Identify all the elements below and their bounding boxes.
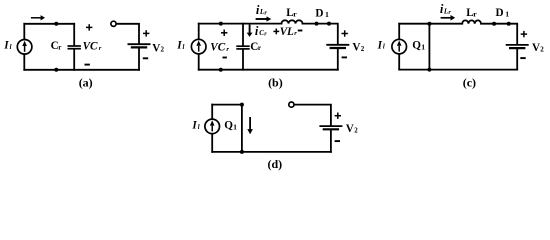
svg-text:(c): (c) — [463, 75, 476, 89]
wire: (d) left branch top segment — [211, 105, 213, 120]
svg-text:2: 2 — [361, 45, 365, 53]
wire: (a) battery branch lower segment — [138, 49, 140, 70]
svg-text:l: l — [383, 44, 385, 51]
plus sign of V2 (b) — [342, 30, 348, 36]
label Il (a) — [3, 40, 11, 52]
current source Il (d) — [205, 119, 220, 134]
svg-text:r: r — [293, 9, 297, 18]
svg-text:I: I — [377, 39, 383, 51]
svg-text:r: r — [294, 30, 297, 37]
svg-text:V: V — [352, 42, 360, 54]
plus sign of V2 (a) — [143, 30, 149, 36]
wire: (b) capacitor branch lower segment — [242, 50, 244, 70]
current arrow iCr (b) — [247, 25, 253, 37]
minus sign of V2 (d) — [335, 140, 340, 142]
wire: (c) top wire from inductor to corner — [481, 24, 517, 44]
svg-text:1: 1 — [233, 123, 237, 132]
label Lr (b) — [286, 7, 297, 19]
label D1 (b) — [315, 7, 329, 19]
label V2 (d) — [346, 123, 358, 135]
label Lr (c) — [466, 7, 477, 19]
wire: (b) top wire from inductor to corner — [303, 24, 338, 44]
wire: (c) left branch bottom segment — [398, 54, 400, 70]
wire: switch Q1 branch (c) — [428, 24, 430, 70]
wire: (b) left branch top segment — [198, 24, 200, 40]
svg-text:i: i — [255, 24, 259, 38]
battery V2 (b) — [326, 45, 349, 48]
svg-text:C: C — [90, 41, 98, 53]
plus sign of VCr (b) — [221, 30, 227, 36]
wire: (a) from terminal to battery branch — [116, 24, 139, 44]
minus sign of V2 (b) — [342, 56, 347, 58]
wire: (b) battery branch lower segment — [337, 49, 339, 70]
svg-text:D: D — [496, 7, 504, 19]
current direction arrow on (a) top wire — [31, 15, 45, 20]
switch Q1 bottom junction dot (c) — [427, 68, 431, 72]
label Il (c) — [377, 39, 385, 51]
minus sign of VCr (b) — [223, 57, 227, 59]
diode D1 anode dot (c) — [492, 22, 496, 26]
svg-text:l: l — [10, 44, 12, 51]
wire: (a) left branch bottom segment — [23, 54, 25, 70]
svg-text:(d): (d) — [267, 157, 282, 171]
wire: (d) bottom wire — [212, 151, 331, 153]
current direction arrow iLr (c) — [441, 15, 456, 21]
svg-text:(a): (a) — [79, 75, 93, 89]
label iLr (b) — [256, 3, 268, 17]
plus sign of VLr (b) — [273, 29, 279, 35]
wire: (a) capacitor branch lower segment — [73, 50, 75, 70]
minus sign of VLr (b) — [298, 30, 303, 32]
svg-text:2: 2 — [354, 126, 358, 134]
label Cr (a) — [51, 40, 62, 52]
label V2 (b) — [352, 42, 364, 54]
wire: (d) battery branch lower segment — [330, 130, 332, 152]
current source Il (b) — [191, 39, 206, 54]
svg-text:I: I — [3, 40, 9, 52]
svg-text:2: 2 — [161, 46, 165, 54]
svg-text:1: 1 — [421, 43, 425, 52]
svg-text:D: D — [315, 7, 323, 19]
plus sign of V2 (d) — [335, 113, 341, 119]
wire: (d) left branch bottom segment — [211, 134, 213, 152]
battery V2 (a) — [128, 44, 151, 47]
label D1 (c) — [496, 7, 510, 19]
label Il (b) — [176, 40, 184, 52]
capacitor Cr (a) — [68, 46, 81, 49]
svg-text:Q: Q — [412, 39, 421, 51]
diode D1 anode dot (b) — [315, 22, 319, 26]
label Q1 (d) — [224, 119, 237, 131]
capacitor Cr (b) — [236, 46, 249, 49]
current direction arrow through Q1 (d) — [247, 117, 253, 134]
wire: (a) bottom wire — [24, 69, 139, 71]
wire: (c) battery branch lower segment — [516, 49, 518, 69]
label Q1 (c) — [412, 39, 425, 51]
svg-text:1: 1 — [325, 10, 329, 19]
open terminal circle (a) — [111, 21, 116, 26]
minus sign of VCr (a) — [85, 64, 90, 66]
svg-text:2: 2 — [540, 46, 544, 54]
diode D1 cathode dot (b) — [327, 22, 331, 26]
battery V2 (c) — [506, 45, 529, 48]
wire: (b) capacitor branch upper segment — [242, 24, 244, 46]
minus sign of V2 (a) — [143, 57, 148, 59]
inductor Lr (c) — [462, 20, 481, 23]
svg-text:(b): (b) — [268, 76, 283, 90]
switch Q1 top junction dot (c) — [427, 22, 431, 26]
svg-text:r: r — [258, 44, 261, 52]
junction dot top of Cr switch node (b) — [219, 22, 223, 26]
wire: (b) top wire from source to inductor — [199, 23, 282, 25]
label VCr (b) — [210, 42, 229, 54]
wire: (c) left branch top segment — [398, 24, 400, 40]
minus sign of V2 (c) — [520, 57, 525, 59]
wire: (a) left branch top segment — [23, 24, 25, 40]
junction dot on (a) bottom wire — [54, 68, 58, 72]
svg-text:C: C — [218, 42, 226, 54]
svg-text:Q: Q — [224, 119, 233, 131]
svg-text:1: 1 — [505, 10, 509, 19]
label VLr (b) — [280, 26, 298, 38]
current source Il (c) — [392, 39, 407, 54]
inductor Lr (b) — [282, 20, 303, 23]
svg-text:l: l — [183, 44, 185, 51]
wire: (a) capacitor branch upper segment — [73, 24, 75, 46]
plus sign of V2 (c) — [521, 31, 527, 37]
svg-text:V: V — [152, 42, 160, 54]
wire: (c) bottom wire — [399, 69, 517, 71]
svg-text:L: L — [286, 26, 294, 38]
svg-text:V: V — [532, 42, 540, 54]
wire: switch Q1 branch (d) — [241, 105, 243, 152]
label VCr (a) — [83, 41, 102, 53]
svg-text:r: r — [58, 43, 61, 51]
wire: (d) top wire from source to switch — [212, 104, 242, 106]
svg-text:r: r — [473, 9, 477, 18]
svg-text:I: I — [191, 120, 197, 132]
label iLr (c) — [440, 2, 452, 16]
open terminal circle (d) — [289, 102, 294, 107]
label Cr (b) — [250, 41, 261, 53]
wire: (d) from terminal to battery branch — [294, 105, 331, 126]
label Il (d) — [191, 120, 199, 132]
svg-text:r: r — [99, 45, 102, 52]
junction dot on (a) top wire — [54, 22, 58, 26]
junction dot bottom of Cr branch (b) — [219, 68, 223, 72]
svg-text:l: l — [198, 124, 200, 131]
current direction arrow iLr (b) — [256, 16, 272, 21]
label V2 (a) — [152, 42, 164, 54]
switch Q1 top junction dot (d) — [240, 103, 244, 107]
plus sign of VCr (a) — [86, 24, 92, 30]
label iCr (b) — [255, 24, 267, 38]
wire: (c) top wire from source to inductor — [399, 23, 462, 25]
svg-text:r: r — [226, 46, 229, 53]
current source Il (a) — [17, 40, 32, 55]
wire: (a) top wire from source to capacitor branch — [24, 23, 74, 25]
label V2 (c) — [532, 42, 544, 54]
wire: (b) left branch bottom segment — [198, 54, 200, 70]
svg-text:V: V — [346, 123, 354, 135]
wire: (b) bottom wire — [199, 69, 338, 71]
switch Q1 bottom junction dot (d) — [240, 150, 244, 154]
diode D1 cathode dot (c) — [507, 22, 511, 26]
svg-text:I: I — [176, 40, 182, 52]
battery V2 (d) — [319, 126, 342, 129]
